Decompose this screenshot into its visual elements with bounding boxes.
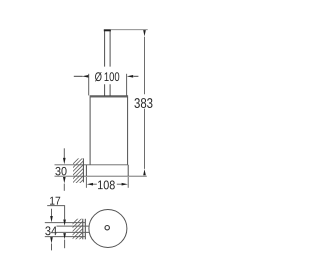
plate top line + 30 extension [55, 164, 129, 166]
cylinder top rim [90, 96, 129, 97]
mounting plate (side view) [86, 165, 128, 176]
dimension 17 arrows (right pair) with label bracket [47, 206, 64, 220]
plate face line (top view) [84, 219, 86, 240]
wall face line (top view) [82, 219, 84, 240]
108 left arrowhead [87, 183, 93, 186]
wall face line (side view) [82, 158, 84, 182]
extension lines for 34 (outer plate edges) [45, 222, 86, 224]
svg-text:30: 30 [55, 164, 67, 178]
svg-text:34: 34 [45, 224, 57, 238]
brush rod (handle) [105, 31, 111, 96]
diameter dimension extension ticks [89, 74, 127, 96]
dimension line 383 (vertical, right) [144, 37, 146, 169]
30 top arrowhead (tip down at plate top) [63, 158, 66, 165]
108 right arrowhead [122, 183, 128, 186]
30 bottom arrowhead (pin below plate bottom) [63, 177, 66, 183]
plate bottom line + 30/383 extension [55, 175, 147, 177]
extension lines for 17 (arm edges) [57, 225, 90, 227]
arrowhead 383 bottom (pin, tip up) [143, 169, 146, 175]
arrowhead 383 top (pin, tip down) [143, 30, 146, 36]
holder circle (top view) [89, 210, 127, 248]
dimension 34 arrows (left pair) [51, 209, 53, 216]
svg-text:Ø 100: Ø 100 [95, 70, 120, 84]
extension line from rod top to 383 dimension [111, 29, 148, 31]
dimension 108 (horizontal, bottom of side view) [86, 177, 128, 188]
dimension 30 (vertical, left of plate) [63, 148, 65, 158]
Ø100 left arrow [74, 75, 83, 77]
rod top cap [104, 29, 111, 31]
Ø100 right arrow [133, 75, 138, 77]
svg-text:108: 108 [97, 178, 115, 192]
svg-text:383: 383 [134, 95, 153, 111]
svg-text:17: 17 [49, 196, 61, 208]
center hole circle [105, 226, 109, 230]
cylinder body [90, 97, 128, 164]
